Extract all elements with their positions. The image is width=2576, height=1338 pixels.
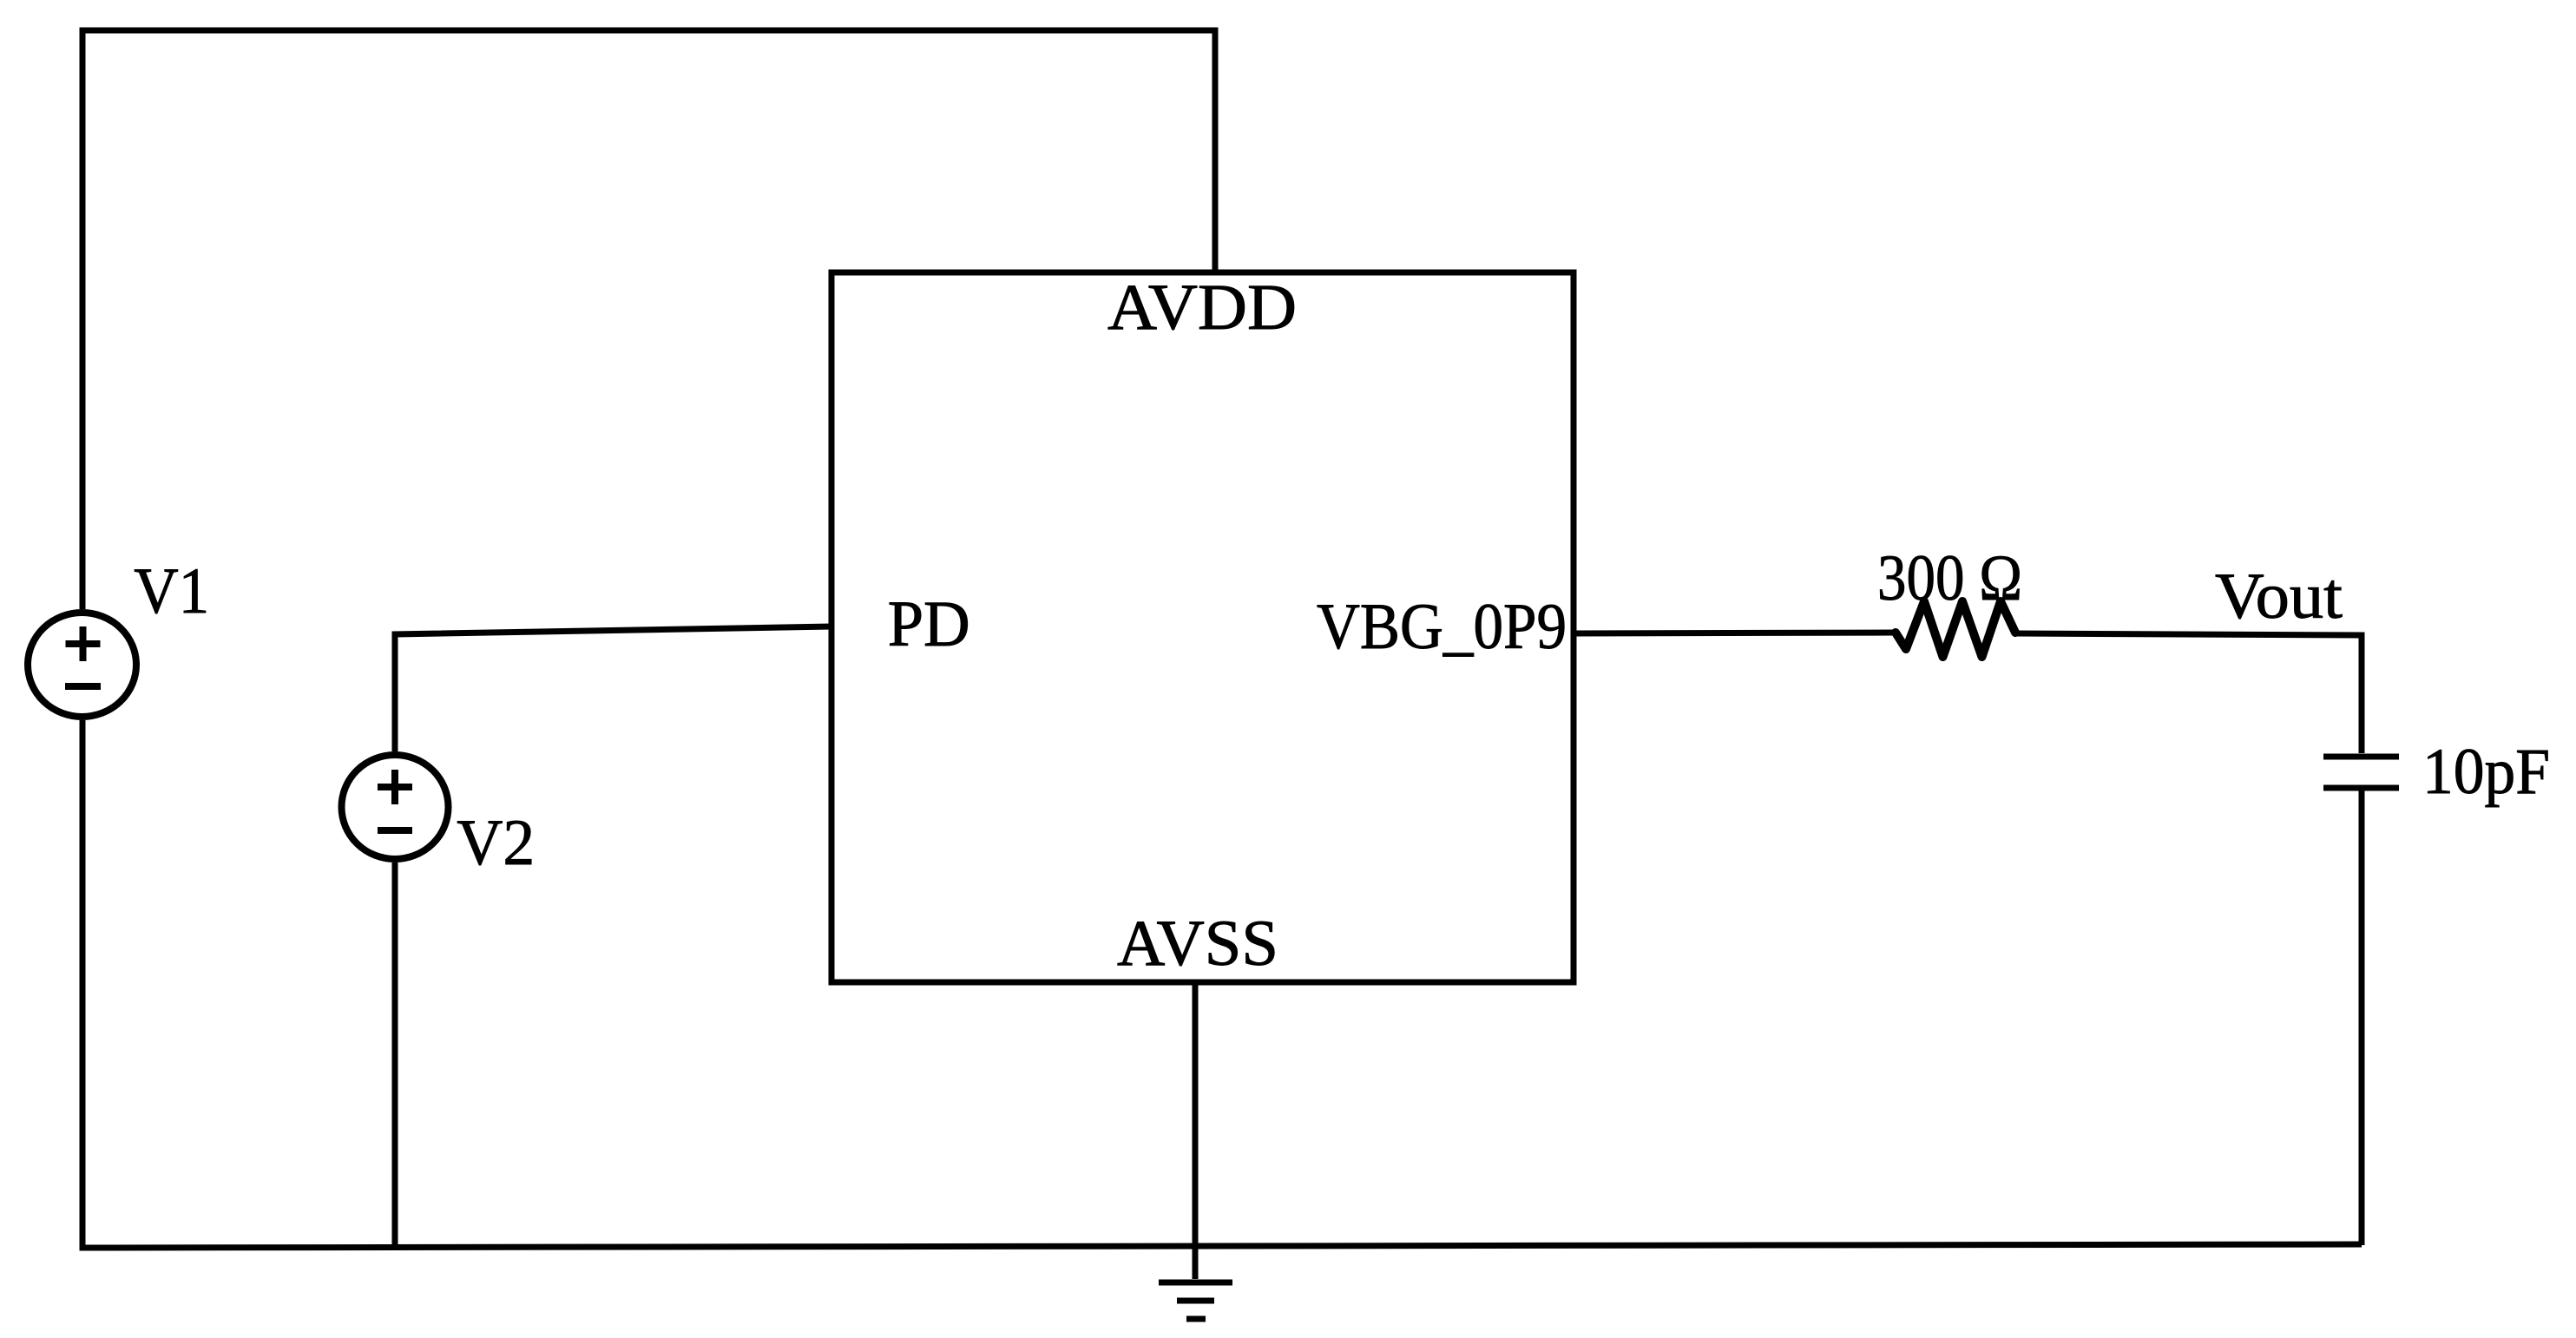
svg-text:AVDD: AVDD	[1107, 272, 1297, 344]
svg-text:10pF: 10pF	[2422, 736, 2550, 808]
svg-text:Vout: Vout	[2215, 561, 2343, 633]
svg-text:V2: V2	[457, 807, 535, 879]
svg-text:V1: V1	[134, 555, 209, 627]
svg-text:300 Ω: 300 Ω	[1877, 542, 2022, 614]
svg-text:AVSS: AVSS	[1117, 908, 1278, 980]
svg-text:VBG_0P9: VBG_0P9	[1317, 591, 1567, 663]
svg-text:PD: PD	[888, 588, 970, 660]
